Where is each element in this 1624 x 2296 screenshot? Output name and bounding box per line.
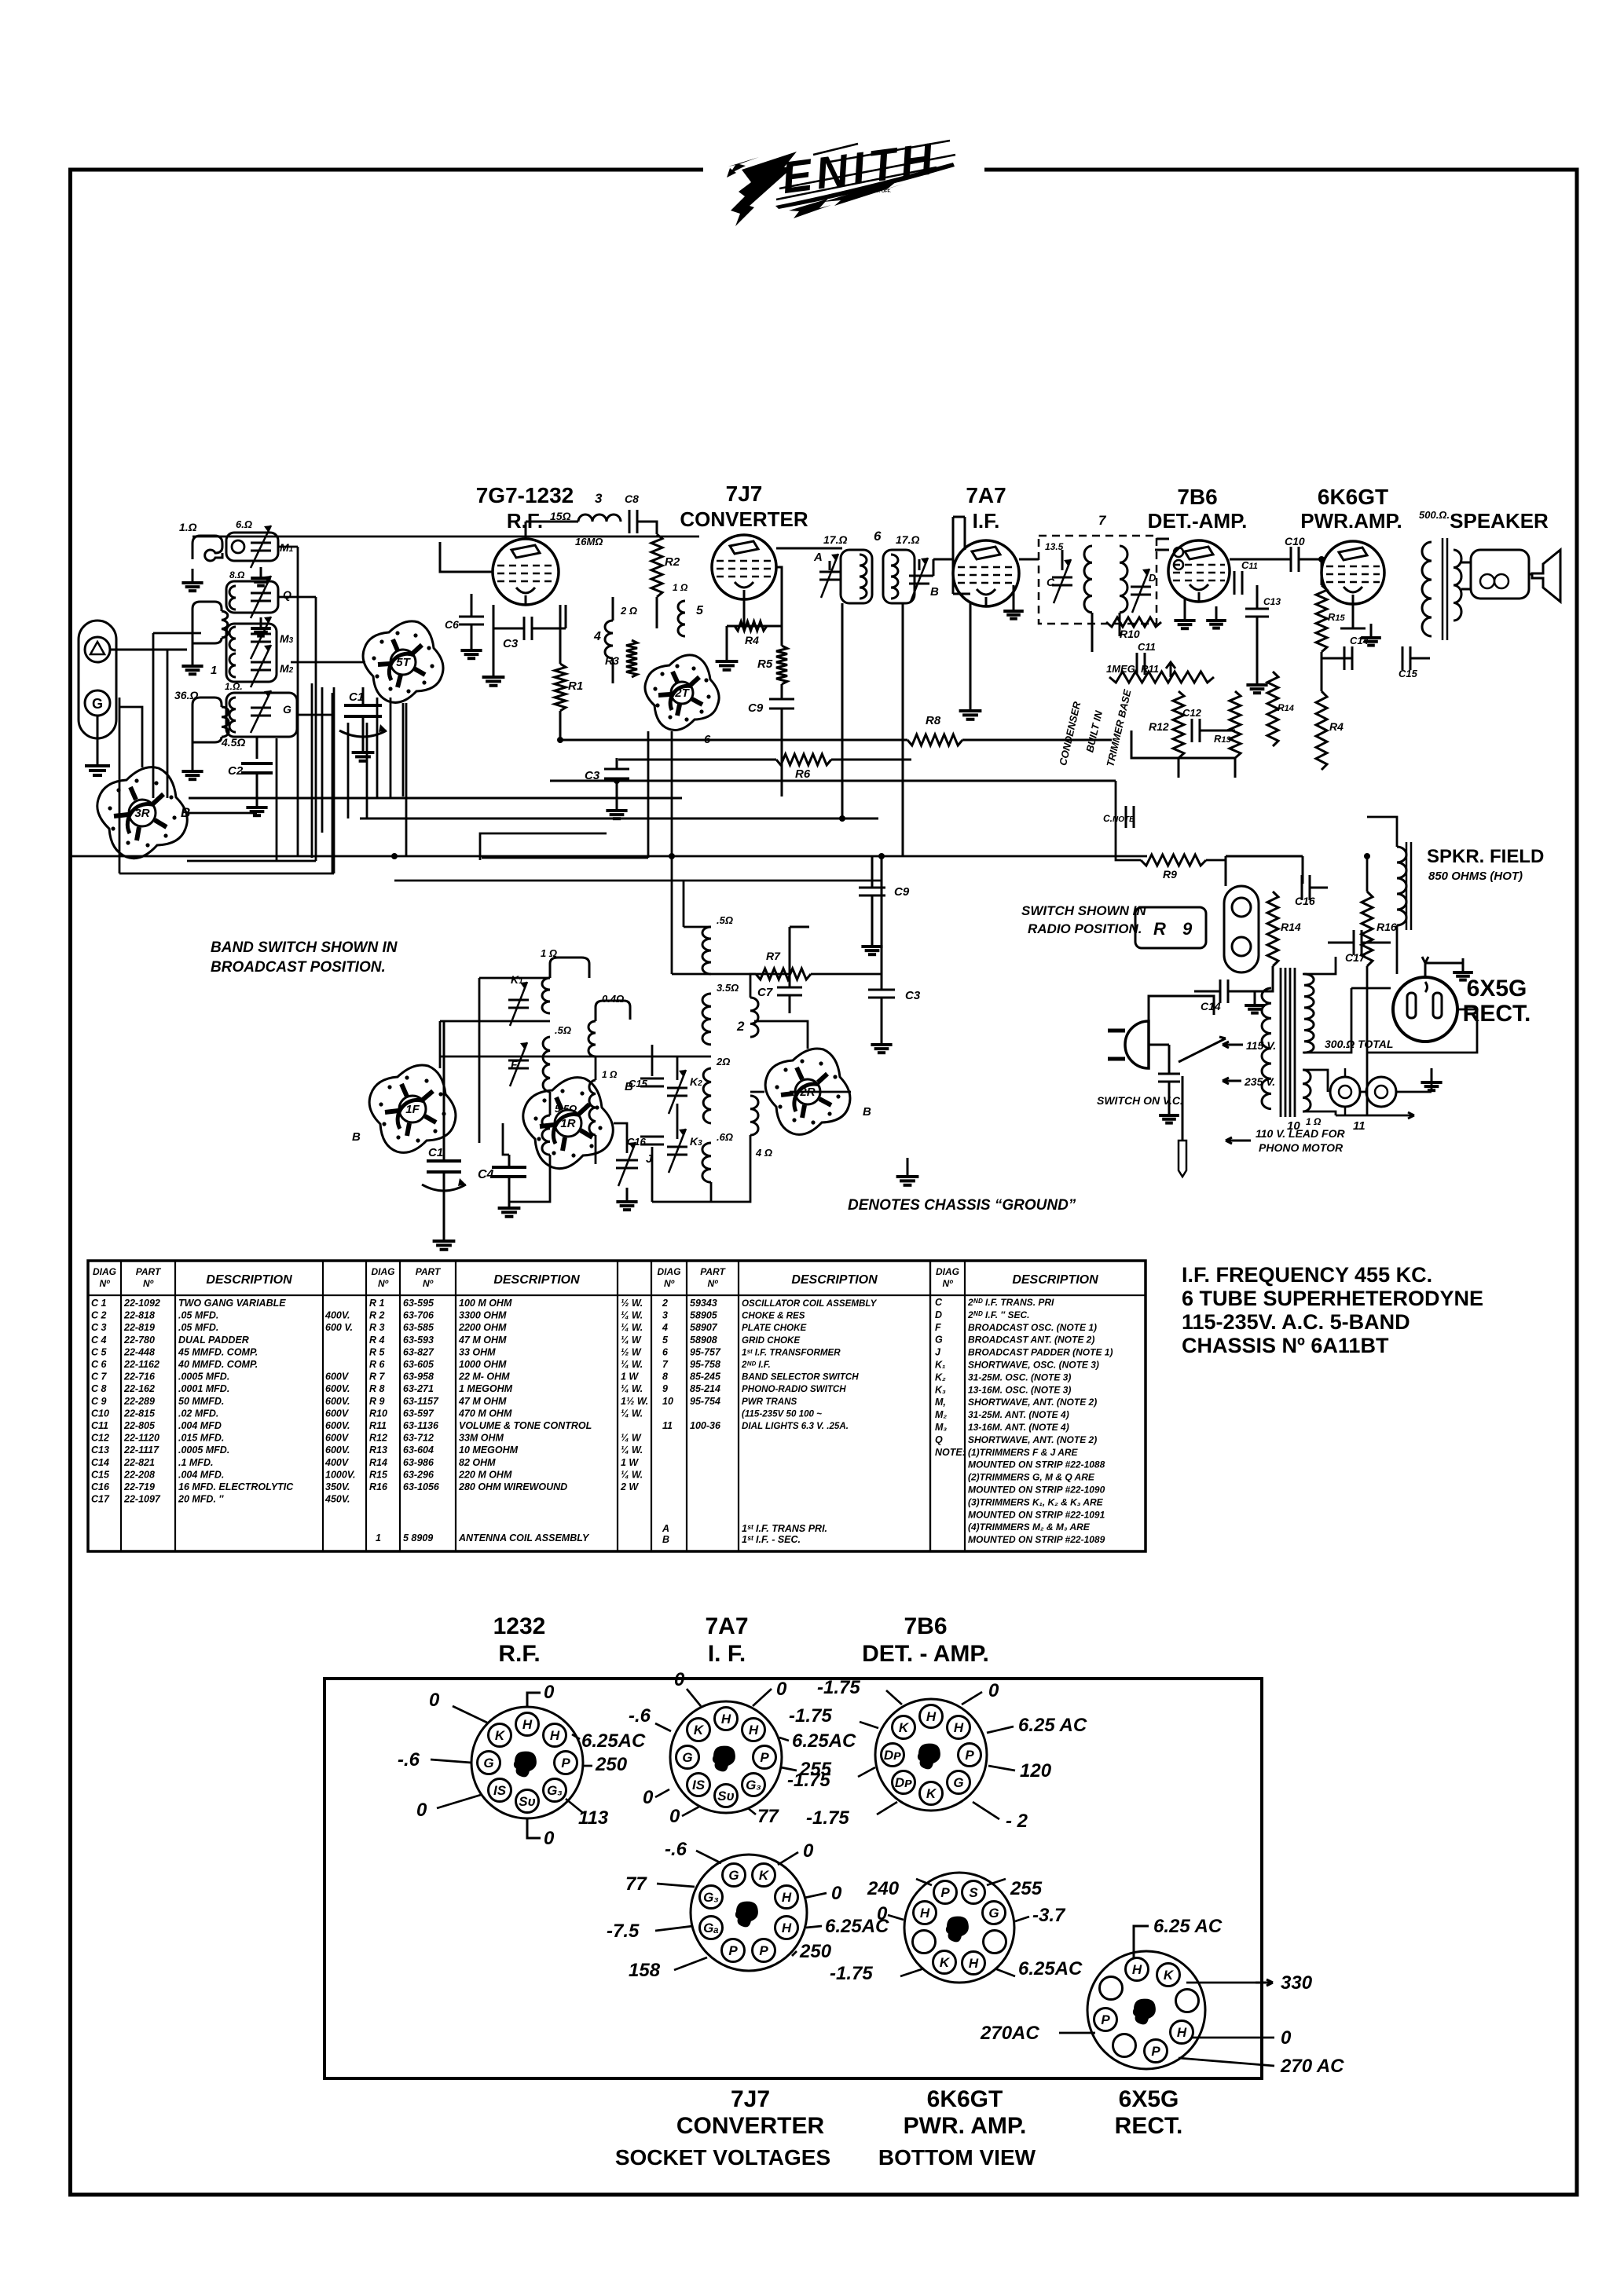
svg-text:1000V.: 1000V.: [325, 1469, 355, 1480]
capacitor C2: [228, 737, 273, 801]
svg-text:G: G: [935, 1335, 943, 1346]
svg-text:3300 OHM: 3300 OHM: [459, 1310, 507, 1321]
ground under J: [616, 1188, 637, 1210]
svg-text:6.25 AC: 6.25 AC: [1018, 1715, 1087, 1736]
label tube V1 7G7-1232 R.F.: [476, 483, 574, 533]
coil 5 osc choke: [673, 582, 704, 636]
svg-text:R13: R13: [369, 1445, 387, 1456]
resistor R3 vertical: [605, 640, 637, 677]
svg-text:C15: C15: [91, 1469, 110, 1480]
svg-text:0: 0: [803, 1840, 814, 1862]
svg-text:Dᴘ: Dᴘ: [895, 1775, 912, 1790]
svg-text:C16: C16: [1295, 895, 1315, 907]
svg-text:1000 OHM: 1000 OHM: [459, 1359, 507, 1370]
svg-text:63-595: 63-595: [403, 1298, 434, 1309]
svg-text:600V.: 600V.: [325, 1383, 350, 1394]
svg-text:250: 250: [595, 1754, 628, 1775]
7B6 diode plates: [1174, 547, 1183, 569]
coil 36ohm: [174, 689, 229, 742]
svg-text:1ˢᵗ I.F. TRANS PRI.: 1ˢᵗ I.F. TRANS PRI.: [742, 1523, 827, 1534]
wire 7B6 k: [1184, 599, 1186, 606]
svg-text:6X5G: 6X5G: [1467, 976, 1527, 1002]
svg-text:220 M OHM: 220 M OHM: [458, 1469, 512, 1480]
svg-text:SWITCH ON V.C.: SWITCH ON V.C.: [1097, 1094, 1183, 1107]
svg-text:-1.75: -1.75: [830, 1963, 873, 1984]
socket V4 7B6 bottom view: [875, 1699, 987, 1811]
svg-text:BROADCAST ANT. (NOTE 2): BROADCAST ANT. (NOTE 2): [968, 1335, 1094, 1346]
svg-text:2ᴺᴰ I.F. ″ SEC.: 2ᴺᴰ I.F. ″ SEC.: [967, 1309, 1029, 1320]
svg-text:K: K: [495, 1728, 506, 1743]
svg-text:350V.: 350V.: [325, 1481, 350, 1492]
svg-text:R9: R9: [1163, 868, 1177, 881]
svg-text:¼ W.: ¼ W.: [621, 1445, 643, 1456]
svg-text:G: G: [283, 703, 291, 716]
svg-text:270AC: 270AC: [980, 2023, 1039, 2044]
svg-text:J: J: [935, 1347, 941, 1358]
wire 7A7 plate out: [1019, 558, 1039, 561]
table rows assemblies 2-11: [662, 1298, 878, 1545]
svg-text:DENOTES CHASSIS “GROUND”: DENOTES CHASSIS “GROUND”: [848, 1197, 1076, 1214]
svg-text:RECT.: RECT.: [1115, 2113, 1183, 2139]
svg-text:RECT.: RECT.: [1463, 1001, 1531, 1027]
band switch wafer 1F: [369, 1065, 456, 1152]
denotes ground symbol: [896, 1158, 919, 1185]
svg-text:C11: C11: [1138, 641, 1156, 653]
svg-text:C17: C17: [1345, 951, 1366, 964]
svg-text:C15: C15: [1399, 668, 1418, 679]
wire bus y967: [618, 759, 911, 761]
svg-text:59343: 59343: [690, 1298, 717, 1309]
svg-text:P: P: [760, 1750, 769, 1765]
ground under 7J7: [716, 647, 739, 670]
svg-text:1 Ω: 1 Ω: [541, 947, 557, 959]
svg-text:I.F.: I.F.: [973, 509, 1000, 533]
switch on VC lever: [1179, 1037, 1226, 1141]
resistor R5 vertical: [757, 646, 787, 684]
svg-text:CHASSIS Nº 6A11BT: CHASSIS Nº 6A11BT: [1182, 1334, 1389, 1357]
svg-text:¼ W: ¼ W: [621, 1335, 642, 1346]
svg-text:-1.75: -1.75: [787, 1770, 830, 1791]
svg-text:2200 OHM: 2200 OHM: [458, 1322, 507, 1333]
capacitor C14b: [1201, 980, 1228, 1013]
svg-text:.0005 MFD.: .0005 MFD.: [178, 1371, 229, 1382]
svg-text:R 4: R 4: [369, 1335, 385, 1346]
wire 3R right: [188, 812, 257, 815]
IF transformer 6 primary coil: [823, 533, 867, 599]
svg-text:450V.: 450V.: [324, 1494, 350, 1505]
svg-text:2T: 2T: [674, 687, 690, 700]
svg-text:K: K: [899, 1720, 910, 1735]
wire 7B6 plate top: [1155, 539, 1169, 550]
svg-text:P: P: [1101, 2012, 1110, 2027]
svg-text:C.NOTE: C.NOTE: [1103, 813, 1135, 824]
output transformer: [1419, 509, 1461, 640]
svg-text:95-757: 95-757: [690, 1346, 721, 1357]
svg-text:330: 330: [1281, 1972, 1313, 1994]
capacitor C plug: [1158, 1074, 1180, 1082]
svg-text:R5: R5: [757, 657, 773, 671]
switch contacts oval: [1224, 886, 1259, 972]
svg-text:63-296: 63-296: [403, 1469, 434, 1480]
svg-text:DET. - AMP.: DET. - AMP.: [862, 1641, 989, 1667]
svg-text:600V.: 600V.: [325, 1420, 350, 1431]
speaker horn: [1532, 550, 1560, 602]
svg-text:22-719: 22-719: [123, 1481, 155, 1492]
svg-text:R14: R14: [369, 1457, 387, 1468]
svg-text:P: P: [759, 1943, 768, 1958]
svg-text:SHORTWAVE, ANT. (NOTE 2): SHORTWAVE, ANT. (NOTE 2): [968, 1434, 1097, 1445]
svg-text:235 V.: 235 V.: [1244, 1075, 1275, 1088]
resistor R7 on wire: [756, 950, 811, 980]
svg-text:PHONO-RADIO SWITCH: PHONO-RADIO SWITCH: [742, 1384, 846, 1394]
wire HV secondary to rect: [1303, 957, 1391, 1053]
svg-text:6.Ω: 6.Ω: [236, 518, 252, 530]
svg-text:B: B: [352, 1130, 361, 1144]
wire C17: [1328, 942, 1391, 944]
svg-text:5: 5: [696, 604, 704, 617]
wire bus y1122: [394, 880, 882, 882]
svg-text:100-36: 100-36: [690, 1420, 721, 1431]
svg-text:(3)TRIMMERS K₁, K₂ & K₃ ARE: (3)TRIMMERS K₁, K₂ & K₃ ARE: [968, 1496, 1104, 1507]
label socket 7J7 CONVERTER: [676, 2086, 825, 2139]
wire RF cathode gnd: [493, 628, 495, 663]
svg-text:SPKR. FIELD: SPKR. FIELD: [1427, 846, 1544, 867]
svg-text:4: 4: [593, 630, 601, 643]
svg-text:Nº: Nº: [143, 1278, 154, 1289]
svg-text:13-16M. ANT. (NOTE 4): 13-16M. ANT. (NOTE 4): [968, 1422, 1069, 1433]
power transformer primary coil: [1262, 988, 1271, 1109]
svg-text:H: H: [522, 1717, 533, 1732]
svg-text:63-986: 63-986: [403, 1457, 434, 1468]
coil mid-left 1: [192, 602, 228, 677]
wire C10: [1230, 558, 1320, 561]
svg-text:M3: M3: [280, 632, 294, 645]
resistor R1 vertical: [555, 664, 583, 711]
table rows capacitors C1-C17: [91, 1298, 355, 1505]
svg-text:63-271: 63-271: [403, 1383, 434, 1394]
svg-text:.1 MFD.: .1 MFD.: [178, 1457, 213, 1468]
svg-text:-.6: -.6: [398, 1749, 420, 1771]
svg-text:17.Ω: 17.Ω: [896, 533, 919, 546]
svg-text:R15: R15: [1328, 611, 1346, 623]
svg-text:.5Ω: .5Ω: [555, 1024, 571, 1036]
osc coil assembly 2 col1: [702, 914, 739, 1182]
wire IF6 secondary out: [915, 559, 953, 576]
tube V1 7G7-1232: [493, 539, 559, 605]
svg-text:22-1092: 22-1092: [123, 1298, 160, 1309]
svg-text:DESCRIPTION: DESCRIPTION: [493, 1273, 580, 1287]
svg-text:850 OHMS (HOT): 850 OHMS (HOT): [1428, 870, 1523, 883]
junction dot spkr field: [1364, 853, 1370, 859]
capacitor C10 coupling: [1285, 535, 1305, 572]
svg-text:(115-235V 50 100 ~: (115-235V 50 100 ~: [742, 1408, 822, 1419]
svg-text:10 MEGOHM: 10 MEGOHM: [459, 1445, 519, 1456]
socket V2 leaders and voltages: [607, 1839, 889, 1981]
svg-text:0: 0: [544, 1828, 555, 1849]
svg-text:BUILT IN: BUILT IN: [1083, 709, 1105, 754]
wire C7: [790, 927, 809, 1013]
svg-text:C 1: C 1: [91, 1298, 107, 1309]
wire R9 bus: [1116, 781, 1226, 860]
svg-text:C3: C3: [905, 989, 921, 1002]
wire left bus 5: [278, 547, 298, 856]
svg-text:TWO GANG VARIABLE: TWO GANG VARIABLE: [178, 1298, 286, 1309]
ground under C13: [1246, 671, 1267, 693]
wire 6K6 misc: [1322, 559, 1430, 691]
label socket 1232 R.F.: [493, 1613, 546, 1667]
svg-text:11: 11: [662, 1420, 673, 1431]
wire bus y1090: [72, 855, 1147, 858]
coil with trimmer G: [225, 681, 297, 737]
svg-text:240: 240: [867, 1878, 900, 1899]
svg-text:M2: M2: [280, 662, 294, 675]
svg-text:5 8909: 5 8909: [403, 1532, 433, 1543]
wire 6X5G cathode out: [1367, 1009, 1477, 1053]
speaker voice coil box: [1471, 550, 1529, 599]
svg-text:K: K: [759, 1868, 770, 1883]
wire bus y1240 R7: [672, 731, 882, 974]
svg-text:10: 10: [662, 1396, 673, 1407]
svg-text:BROADCAST OSC. (NOTE 1): BROADCAST OSC. (NOTE 1): [968, 1322, 1097, 1333]
svg-text:R2: R2: [665, 555, 680, 569]
ground right of dial lights: [1421, 1068, 1442, 1090]
svg-text:C 3: C 3: [91, 1322, 107, 1333]
IF7 primary coil: [1084, 546, 1092, 613]
svg-text:7: 7: [662, 1359, 669, 1370]
svg-text:SPEAKER: SPEAKER: [1450, 509, 1549, 533]
wire C1: [362, 687, 365, 738]
svg-text:C13: C13: [1263, 596, 1281, 607]
svg-text:RADIO POSITION.: RADIO POSITION.: [1028, 921, 1142, 936]
capacitor C8: [625, 493, 639, 533]
svg-text:470 M OHM: 470 M OHM: [458, 1408, 512, 1419]
band switch wafer 3R: [97, 767, 187, 859]
resistor R13b vertical: [1267, 672, 1294, 746]
svg-text:33M OHM: 33M OHM: [459, 1433, 504, 1444]
junction dot y994: [614, 778, 620, 784]
svg-text:400V.: 400V.: [324, 1310, 350, 1321]
svg-text:BROADCAST PADDER (NOTE 1): BROADCAST PADDER (NOTE 1): [968, 1347, 1113, 1358]
svg-text:MOUNTED ON STRIP #22-1089: MOUNTED ON STRIP #22-1089: [968, 1534, 1105, 1545]
resistor R13 vertical: [1214, 691, 1241, 758]
trimmer K3 mid: [667, 1129, 702, 1173]
resistor R11 1meg horizontal: [1106, 663, 1214, 683]
svg-text:22-162: 22-162: [123, 1383, 155, 1394]
svg-text:63-604: 63-604: [403, 1445, 434, 1456]
svg-text:Sᴜ: Sᴜ: [519, 1794, 535, 1809]
svg-text:(4)TRIMMERS M₂ & M₃ ARE: (4)TRIMMERS M₂ & M₃ ARE: [968, 1522, 1091, 1532]
svg-text:1ˢᵗ I.F. TRANSFORMER: 1ˢᵗ I.F. TRANSFORMER: [742, 1347, 841, 1357]
svg-text:IS: IS: [692, 1778, 706, 1792]
capacitor C3 on bus: [585, 769, 629, 782]
svg-text:C 2: C 2: [91, 1310, 107, 1321]
svg-text:3: 3: [662, 1310, 668, 1321]
svg-text:R4: R4: [745, 634, 759, 646]
capacitor C11 r: [1234, 559, 1258, 595]
svg-text:PHONO MOTOR: PHONO MOTOR: [1259, 1141, 1344, 1154]
coil 6ohm with trimmer M1: [226, 518, 294, 568]
svg-text:4.5Ω: 4.5Ω: [221, 736, 245, 749]
svg-text:2 W: 2 W: [620, 1481, 639, 1492]
ground right 7B6: [1206, 606, 1226, 628]
svg-text:ANTENNA COIL ASSEMBLY: ANTENNA COIL ASSEMBLY: [458, 1532, 590, 1543]
label 115V: [1223, 1039, 1276, 1052]
svg-text:100 M OHM: 100 M OHM: [459, 1298, 512, 1309]
wire 5T to C1: [291, 662, 403, 798]
svg-text:.5Ω: .5Ω: [717, 914, 733, 926]
ground under 36ohm coil: [181, 757, 203, 779]
svg-text:B: B: [930, 585, 939, 599]
svg-text:½ W.: ½ W.: [621, 1298, 643, 1309]
svg-text:Q: Q: [935, 1434, 943, 1445]
svg-text:R 6: R 6: [369, 1359, 386, 1370]
svg-text:2: 2: [736, 1019, 745, 1034]
svg-text:H: H: [749, 1723, 759, 1738]
svg-text:1 W: 1 W: [621, 1457, 639, 1468]
svg-text:3.5Ω: 3.5Ω: [717, 982, 739, 994]
wire left bus 4: [153, 633, 201, 798]
svg-text:1R: 1R: [560, 1117, 575, 1130]
svg-text:50 MMFD.: 50 MMFD.: [178, 1396, 224, 1407]
svg-text:CONVERTER: CONVERTER: [680, 507, 808, 531]
svg-text:OSCILLATOR COIL ASSEMBLY: OSCILLATOR COIL ASSEMBLY: [742, 1298, 878, 1309]
svg-text:BAND SWITCH SHOWN IN: BAND SWITCH SHOWN IN: [211, 939, 398, 956]
trimmer F: [508, 1042, 529, 1086]
svg-text:400V: 400V: [324, 1457, 350, 1468]
svg-text:G: G: [682, 1750, 692, 1765]
wire C3: [493, 605, 566, 628]
wire speaker: [1461, 562, 1532, 589]
svg-text:PWR TRANS: PWR TRANS: [742, 1397, 797, 1407]
svg-text:R16: R16: [369, 1481, 388, 1492]
power transformer core: [1281, 968, 1295, 1117]
svg-text:77: 77: [757, 1806, 779, 1827]
svg-text:58908: 58908: [690, 1335, 717, 1346]
svg-text:3R: 3R: [134, 807, 149, 820]
svg-text:R10: R10: [1120, 628, 1140, 640]
svg-text:31-25M. ANT. (NOTE 4): 31-25M. ANT. (NOTE 4): [968, 1409, 1069, 1420]
svg-text:G: G: [92, 696, 103, 712]
tube V5 6K6GT: [1322, 541, 1384, 604]
svg-text:0: 0: [669, 1806, 680, 1827]
junction dot R1 bus: [557, 737, 563, 743]
svg-text:1ˢᵗ I.F. - SEC.: 1ˢᵗ I.F. - SEC.: [742, 1534, 801, 1545]
svg-text:BOTTOM VIEW: BOTTOM VIEW: [878, 2145, 1036, 2170]
svg-text:58907: 58907: [690, 1322, 718, 1333]
svg-text:600V.: 600V.: [325, 1396, 350, 1407]
svg-text:1 Ω: 1 Ω: [673, 582, 688, 593]
svg-text:REG. U.S. PAT. OFF.: REG. U.S. PAT. OFF.: [850, 189, 891, 194]
svg-text:G₃: G₃: [746, 1778, 761, 1792]
coil with trimmer Q: [226, 569, 291, 618]
svg-text:2Ω: 2Ω: [716, 1056, 730, 1067]
ground under C14b: [1245, 991, 1265, 1013]
junction dot 2T bus: [669, 853, 675, 859]
svg-text:95-758: 95-758: [690, 1359, 720, 1370]
svg-text:Nº: Nº: [99, 1278, 110, 1289]
svg-text:R 2: R 2: [369, 1310, 385, 1321]
tube V4 7B6: [1168, 540, 1230, 602]
svg-text:PWR.AMP.: PWR.AMP.: [1300, 509, 1402, 533]
svg-text:.0001 MFD.: .0001 MFD.: [178, 1383, 229, 1394]
svg-text:G: G: [728, 1868, 739, 1883]
label socket 6X5G RECT: [1115, 2086, 1183, 2139]
svg-text:22-815: 22-815: [123, 1408, 156, 1419]
table grid: [88, 1261, 1146, 1551]
svg-text:500.Ω.: 500.Ω.: [1419, 509, 1450, 521]
capacitor C14: [1344, 635, 1369, 670]
svg-text:-3.7: -3.7: [1032, 1905, 1066, 1926]
svg-text:1: 1: [211, 664, 217, 677]
svg-text:22-289: 22-289: [123, 1396, 155, 1407]
svg-text:SOCKET VOLTAGES: SOCKET VOLTAGES: [615, 2145, 830, 2170]
svg-text:A: A: [662, 1523, 669, 1534]
svg-text:C: C: [1047, 576, 1055, 588]
svg-text:C17: C17: [91, 1494, 110, 1505]
svg-text:95-754: 95-754: [690, 1396, 720, 1407]
svg-text:¼ W.: ¼ W.: [621, 1383, 643, 1394]
svg-text:P: P: [940, 1885, 950, 1900]
socket V2 7J7 bottom view: [691, 1855, 807, 1971]
svg-text:250: 250: [799, 1941, 832, 1962]
ground right of 7A7: [1003, 597, 1024, 619]
svg-text:PWR. AMP.: PWR. AMP.: [904, 2113, 1027, 2139]
wire IF6 top: [776, 548, 919, 570]
wire R5: [776, 567, 782, 796]
trimmer A: [813, 551, 840, 598]
svg-text:(2)TRIMMERS G, M & Q ARE: (2)TRIMMERS G, M & Q ARE: [968, 1472, 1095, 1483]
svg-text:CONDENSER: CONDENSER: [1057, 700, 1083, 767]
svg-text:¼ W.: ¼ W.: [621, 1469, 643, 1480]
capacitor C15 osc: [629, 1078, 664, 1089]
ground under C2: [246, 793, 267, 815]
7A7 grid lead loop: [953, 517, 970, 594]
AC plug: [1108, 1021, 1149, 1068]
svg-text:6K6GT: 6K6GT: [1318, 485, 1388, 509]
osc coil F: [511, 1024, 571, 1092]
ground under 1ohm coil: [181, 569, 203, 591]
svg-text:P: P: [965, 1748, 974, 1763]
svg-text:8.Ω: 8.Ω: [229, 569, 245, 580]
svg-text:7B6: 7B6: [1177, 485, 1217, 509]
svg-text:600V: 600V: [325, 1408, 350, 1419]
speaker field coil: [1397, 842, 1411, 930]
wire C3b: [881, 856, 883, 1031]
svg-text:R 5: R 5: [369, 1346, 386, 1357]
svg-text:G₃: G₃: [547, 1783, 563, 1798]
svg-text:31-25M. OSC. (NOTE 3): 31-25M. OSC. (NOTE 3): [968, 1371, 1071, 1382]
svg-text:TRIMMER BASE: TRIMMER BASE: [1104, 688, 1133, 768]
svg-text:R.F.: R.F.: [498, 1641, 540, 1667]
wire 7J7 cathode: [727, 599, 782, 647]
svg-text:47 M OHM: 47 M OHM: [458, 1396, 507, 1407]
svg-text:- 2: - 2: [1006, 1811, 1028, 1832]
wire dial lights: [1303, 1068, 1432, 1119]
svg-text:1.Ω: 1.Ω: [179, 521, 197, 533]
svg-text:¼ W.: ¼ W.: [621, 1359, 643, 1370]
wire C16 mid: [1226, 856, 1328, 888]
svg-text:82 OHM: 82 OHM: [459, 1457, 496, 1468]
table headers: [93, 1266, 1098, 1289]
ground under C3 bus: [606, 796, 627, 818]
svg-text:300.Ω TOTAL: 300.Ω TOTAL: [1325, 1038, 1393, 1050]
svg-text:D: D: [1149, 572, 1157, 584]
svg-text:270 AC: 270 AC: [1280, 2056, 1344, 2077]
svg-text:H: H: [920, 1906, 930, 1921]
band switch wafer 2T: [645, 655, 719, 731]
svg-text:C 9: C 9: [91, 1396, 107, 1407]
IF7 secondary coil: [1120, 546, 1127, 613]
